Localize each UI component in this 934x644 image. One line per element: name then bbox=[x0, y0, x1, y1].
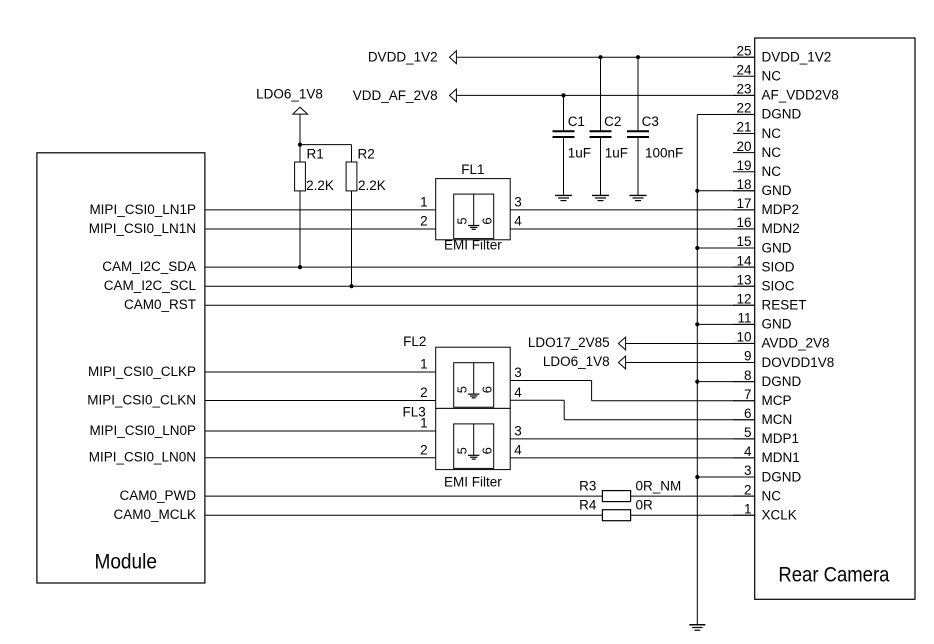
svg-text:EMI Filter: EMI Filter bbox=[444, 474, 502, 489]
svg-text:17: 17 bbox=[736, 196, 751, 211]
svg-text:1: 1 bbox=[420, 195, 428, 210]
wire MIPI_CSI0_LN1N module to FL1 pin2 bbox=[205, 228, 436, 230]
module pin label MIPI_CSI0_CLKN bbox=[87, 392, 196, 407]
wire MIPI_CSI0_LN0N module to FL3 pin2 bbox=[205, 457, 436, 459]
svg-text:AVDD_2V8: AVDD_2V8 bbox=[762, 336, 830, 351]
pin 9 DOVDD1V8 of Rear Camera bbox=[733, 349, 834, 370]
svg-text:25: 25 bbox=[736, 43, 751, 58]
ground inside FL2 bbox=[468, 394, 480, 398]
pin 17 MDP2 of Rear Camera bbox=[733, 196, 799, 217]
EMI Filter caption under FL1 bbox=[444, 238, 502, 253]
svg-text:6: 6 bbox=[744, 406, 752, 421]
svg-text:15: 15 bbox=[736, 234, 751, 249]
pin 20 NC of Rear Camera bbox=[733, 139, 781, 160]
wire DVDD_1V2 rail to pin25 bbox=[456, 56, 754, 58]
ground inside FL3 bbox=[468, 455, 480, 459]
pin 5 label of FL1 (rotated) bbox=[454, 217, 469, 224]
wire FL3 pin3 to pin5 MDP1 bbox=[510, 438, 755, 440]
resistor R3 0R_NM bbox=[579, 478, 681, 501]
svg-text:16: 16 bbox=[736, 215, 751, 230]
svg-text:5: 5 bbox=[744, 425, 752, 440]
svg-text:FL2: FL2 bbox=[403, 334, 426, 349]
svg-text:5: 5 bbox=[454, 217, 469, 224]
pin 12 RESET of Rear Camera bbox=[733, 292, 807, 313]
wire FL2 pin4 to pin6 MCN with jog bbox=[510, 400, 754, 420]
svg-text:VDD_AF_2V8: VDD_AF_2V8 bbox=[353, 88, 438, 103]
module pin label CAM0_MCLK bbox=[113, 507, 196, 522]
svg-text:19: 19 bbox=[736, 158, 751, 173]
wire CAM0_MCLK module to R4 left bbox=[205, 514, 603, 516]
wire MIPI_CSI0_LN1P module to FL1 pin1 bbox=[205, 209, 436, 211]
svg-text:DVDD_1V2: DVDD_1V2 bbox=[762, 50, 832, 65]
pin 8 DGND of Rear Camera bbox=[733, 368, 801, 389]
module pin label CAM0_RST bbox=[124, 297, 196, 312]
pin numbers 1-4 of FL1 bbox=[420, 195, 522, 229]
svg-text:CAM_I2C_SDA: CAM_I2C_SDA bbox=[102, 259, 196, 274]
svg-text:Rear Camera: Rear Camera bbox=[778, 563, 889, 587]
module pin label CAM0_PWD bbox=[119, 488, 196, 503]
wire FL3 pin4 to pin4 MDN1 bbox=[510, 457, 755, 459]
svg-text:3: 3 bbox=[514, 365, 522, 380]
svg-text:C2: C2 bbox=[604, 114, 621, 129]
svg-text:MIPI_CSI0_LN0P: MIPI_CSI0_LN0P bbox=[89, 423, 196, 438]
svg-text:12: 12 bbox=[736, 292, 751, 307]
ground symbol at bottom of rail bbox=[689, 625, 705, 630]
pin 21 NC of Rear Camera bbox=[733, 120, 781, 141]
svg-text:0R: 0R bbox=[636, 498, 654, 513]
svg-text:DGND: DGND bbox=[762, 374, 802, 389]
svg-text:CAM_I2C_SCL: CAM_I2C_SCL bbox=[104, 278, 197, 293]
reference label FL3 bbox=[403, 404, 426, 419]
wire VDD_AF_2V8 rail to pin23 bbox=[456, 94, 754, 96]
pin 5 MDP1 of Rear Camera bbox=[733, 425, 799, 446]
EMI filter FL1 body bbox=[436, 179, 511, 240]
svg-text:100nF: 100nF bbox=[645, 146, 683, 161]
svg-text:4: 4 bbox=[514, 385, 522, 400]
svg-text:XCLK: XCLK bbox=[762, 508, 797, 523]
svg-text:SIOD: SIOD bbox=[762, 259, 795, 274]
wire MIPI_CSI0_LN0P module to FL3 pin1 bbox=[205, 430, 436, 432]
capacitor C2 1uF bbox=[590, 57, 628, 195]
svg-text:MCP: MCP bbox=[762, 393, 792, 408]
module pin label MIPI_CSI0_LN0P bbox=[89, 423, 196, 438]
svg-text:1uF: 1uF bbox=[568, 146, 591, 161]
svg-text:20: 20 bbox=[736, 139, 751, 154]
pin 6 label of FL1 (rotated) bbox=[479, 217, 494, 224]
svg-text:11: 11 bbox=[737, 311, 751, 326]
pin numbers 1-4 of FL2 bbox=[420, 357, 522, 401]
svg-text:3: 3 bbox=[514, 424, 522, 439]
svg-text:3: 3 bbox=[744, 463, 752, 478]
svg-text:C3: C3 bbox=[642, 114, 659, 129]
wire DGND pin22 to vertical ground rail bbox=[697, 114, 754, 116]
svg-text:8: 8 bbox=[744, 368, 752, 383]
reference label FL1 bbox=[461, 162, 484, 177]
svg-text:R2: R2 bbox=[358, 146, 375, 161]
svg-text:C1: C1 bbox=[568, 114, 585, 129]
svg-text:FL3: FL3 bbox=[403, 404, 426, 419]
pin 19 NC of Rear Camera bbox=[733, 158, 781, 179]
pin 1 XCLK of Rear Camera bbox=[733, 501, 797, 522]
resistor R4 0R bbox=[579, 498, 653, 521]
svg-text:RESET: RESET bbox=[762, 298, 807, 313]
pin 15 GND of Rear Camera bbox=[733, 234, 792, 255]
svg-text:NC: NC bbox=[762, 126, 782, 141]
pin 14 SIOD of Rear Camera bbox=[733, 253, 795, 274]
svg-text:24: 24 bbox=[736, 63, 752, 78]
svg-text:9: 9 bbox=[744, 349, 752, 364]
svg-text:22: 22 bbox=[736, 101, 751, 116]
svg-text:DGND: DGND bbox=[762, 469, 802, 484]
pin 6 label of FL3 (rotated) bbox=[479, 447, 494, 454]
resistor R1 2.2K bbox=[295, 145, 334, 268]
svg-text:6: 6 bbox=[479, 217, 494, 224]
svg-text:R3: R3 bbox=[579, 478, 596, 493]
junction R2 bottom on SCL wire bbox=[349, 284, 353, 288]
svg-text:3: 3 bbox=[514, 195, 522, 210]
power flag VDD_AF_2V8 arrow bbox=[353, 88, 457, 103]
svg-text:0R_NM: 0R_NM bbox=[636, 478, 682, 493]
svg-text:23: 23 bbox=[736, 82, 751, 97]
svg-text:2: 2 bbox=[420, 443, 428, 458]
svg-text:MDP1: MDP1 bbox=[762, 431, 800, 446]
module pin label CAM_I2C_SCL bbox=[104, 278, 197, 293]
junction rail pin15 bbox=[695, 246, 699, 250]
wire GND pin11 stub bbox=[697, 323, 754, 325]
junction rail pin8 bbox=[695, 380, 699, 384]
pin 10 AVDD_2V8 of Rear Camera bbox=[733, 330, 830, 351]
svg-text:DOVDD1V8: DOVDD1V8 bbox=[762, 355, 835, 370]
wire CAM_I2C_SDA / SIOD net module to pin14 bbox=[205, 266, 755, 268]
svg-text:7: 7 bbox=[744, 387, 752, 402]
IC U1 Rear Camera box bbox=[755, 38, 915, 599]
EMI filter FL2 body bbox=[436, 347, 511, 408]
pin 5 label of FL3 (rotated) bbox=[454, 447, 469, 454]
junction C2 top on DVDD_1V2 rail bbox=[598, 55, 602, 59]
wire R4 right to pin1 XCLK bbox=[631, 514, 755, 516]
svg-text:MDN2: MDN2 bbox=[762, 221, 800, 236]
svg-text:2: 2 bbox=[420, 214, 428, 229]
wire LDO17_2V85 to pin10 AVDD_2V8 bbox=[626, 343, 755, 345]
svg-text:2: 2 bbox=[420, 385, 428, 400]
junction R1 bottom on SDA wire bbox=[298, 265, 302, 269]
wire CAM_I2C_SCL / SIOC net module to pin13 bbox=[205, 285, 755, 287]
junction rail pin11 bbox=[695, 322, 699, 326]
pin 25 DVDD_1V2 of Rear Camera bbox=[733, 43, 831, 64]
svg-text:GND: GND bbox=[762, 183, 792, 198]
wire DGND pin8 stub bbox=[697, 381, 754, 383]
svg-text:6: 6 bbox=[479, 447, 494, 454]
pin 13 SIOC of Rear Camera bbox=[733, 272, 795, 293]
pin 16 MDN2 of Rear Camera bbox=[733, 215, 800, 236]
svg-text:13: 13 bbox=[736, 272, 751, 287]
junction C3 top on DVDD_1V2 rail bbox=[636, 55, 640, 59]
svg-text:LDO6_1V8: LDO6_1V8 bbox=[256, 87, 323, 102]
svg-text:NC: NC bbox=[762, 69, 782, 84]
svg-text:MDN1: MDN1 bbox=[762, 450, 800, 465]
svg-text:CAM0_MCLK: CAM0_MCLK bbox=[113, 507, 196, 522]
power flag DVDD_1V2 arrow bbox=[368, 50, 457, 65]
pin 23 AF_VDD2V8 of Rear Camera bbox=[733, 82, 839, 103]
svg-text:1: 1 bbox=[744, 501, 752, 516]
power symbol LDO6_1V8 (top) bbox=[256, 87, 323, 145]
pin 7 MCP of Rear Camera bbox=[733, 387, 792, 408]
module pin label MIPI_CSI0_CLKP bbox=[88, 364, 196, 379]
EMI Filter caption under FL3 bbox=[444, 474, 502, 489]
wire MIPI_CSI0_CLKP module to FL2 pin1 bbox=[205, 371, 436, 373]
svg-text:MIPI_CSI0_LN1P: MIPI_CSI0_LN1P bbox=[89, 202, 196, 217]
svg-text:NC: NC bbox=[762, 164, 782, 179]
module pin label MIPI_CSI0_LN1P bbox=[89, 202, 196, 217]
pin numbers 1-4 of FL3 bbox=[420, 416, 522, 458]
svg-text:LDO6_1V8: LDO6_1V8 bbox=[543, 354, 610, 369]
svg-text:18: 18 bbox=[736, 177, 751, 192]
svg-text:CAM0_RST: CAM0_RST bbox=[124, 297, 196, 312]
svg-text:DVDD_1V2: DVDD_1V2 bbox=[368, 50, 438, 65]
pin 24 NC of Rear Camera bbox=[733, 63, 781, 84]
svg-text:14: 14 bbox=[736, 253, 752, 268]
wire FL1 pin4 to pin16 MDN2 bbox=[510, 228, 755, 230]
svg-text:GND: GND bbox=[762, 240, 792, 255]
ground inside FL1 bbox=[468, 226, 480, 230]
svg-text:MCN: MCN bbox=[762, 412, 793, 427]
wire GND pin15 stub bbox=[697, 247, 754, 249]
svg-text:2: 2 bbox=[744, 482, 752, 497]
svg-text:FL1: FL1 bbox=[461, 162, 484, 177]
pin 6 MCN of Rear Camera bbox=[733, 406, 792, 427]
svg-text:R4: R4 bbox=[579, 498, 597, 513]
pin 4 MDN1 of Rear Camera bbox=[733, 444, 800, 465]
svg-text:MIPI_CSI0_CLKP: MIPI_CSI0_CLKP bbox=[88, 364, 196, 379]
power flag LDO6_1V8 arrow (right) bbox=[543, 354, 626, 369]
wire FL2 pin3 to pin7 MCP with jog bbox=[510, 381, 754, 401]
ground below C2 bbox=[592, 195, 609, 200]
junction C1 top on VDD_AF_2V8 rail bbox=[561, 93, 565, 97]
svg-text:EMI Filter: EMI Filter bbox=[444, 238, 502, 253]
ground below C1 bbox=[555, 195, 572, 200]
svg-text:GND: GND bbox=[762, 317, 792, 332]
pin 5 label of FL2 (rotated) bbox=[454, 386, 469, 393]
wire DGND pin3 stub bbox=[697, 476, 754, 478]
pin 2 NC of Rear Camera bbox=[733, 482, 781, 503]
svg-text:MIPI_CSI0_LN0N: MIPI_CSI0_LN0N bbox=[89, 450, 196, 465]
resistor R2 2.2K bbox=[346, 146, 386, 286]
svg-text:2.2K: 2.2K bbox=[306, 178, 334, 193]
wire LDO6_1V8 junction to R2 top bbox=[300, 145, 352, 162]
capacitor C1 1uF bbox=[553, 95, 591, 195]
svg-text:10: 10 bbox=[736, 330, 751, 345]
wire FL1 pin3 to pin17 MDP2 bbox=[510, 209, 755, 211]
svg-text:CAM0_PWD: CAM0_PWD bbox=[119, 488, 196, 503]
svg-text:4: 4 bbox=[744, 444, 752, 459]
svg-text:1uF: 1uF bbox=[605, 146, 628, 161]
EMI filter FL3 body bbox=[436, 408, 511, 469]
power flag LDO17_2V85 arrow bbox=[528, 335, 626, 350]
module box (Module) bbox=[37, 153, 205, 583]
svg-text:Module: Module bbox=[94, 549, 157, 573]
pin 18 GND of Rear Camera bbox=[733, 177, 792, 198]
module pin label CAM_I2C_SDA bbox=[102, 259, 196, 274]
pin 11 GND of Rear Camera bbox=[733, 311, 792, 332]
pin 22 DGND of Rear Camera bbox=[733, 101, 801, 122]
junction rail pin3 bbox=[695, 475, 699, 479]
svg-text:NC: NC bbox=[762, 145, 782, 160]
pin 3 DGND of Rear Camera bbox=[733, 463, 801, 484]
svg-text:NC: NC bbox=[762, 488, 782, 503]
junction LDO6_1V8 R1 R2 bbox=[298, 143, 302, 147]
svg-text:R1: R1 bbox=[307, 146, 324, 161]
wire GND pin18 stub bbox=[697, 190, 754, 192]
module pin label MIPI_CSI0_LN1N bbox=[89, 221, 196, 236]
wire CAM0_RST / RESET net module to pin12 bbox=[205, 304, 755, 306]
reference label FL2 bbox=[403, 334, 426, 349]
svg-text:5: 5 bbox=[454, 386, 469, 393]
svg-text:DGND: DGND bbox=[762, 107, 802, 122]
svg-text:4: 4 bbox=[514, 214, 522, 229]
svg-text:AF_VDD2V8: AF_VDD2V8 bbox=[762, 88, 839, 103]
svg-text:LDO17_2V85: LDO17_2V85 bbox=[528, 335, 610, 350]
vertical ground rail wire bbox=[696, 115, 698, 625]
svg-text:MDP2: MDP2 bbox=[762, 202, 800, 217]
wire R3 right to pin2 NC bbox=[631, 495, 755, 497]
pin 6 label of FL2 (rotated) bbox=[479, 386, 494, 393]
svg-text:MIPI_CSI0_CLKN: MIPI_CSI0_CLKN bbox=[87, 392, 196, 407]
svg-text:SIOC: SIOC bbox=[762, 279, 795, 294]
ground below C3 bbox=[630, 195, 647, 200]
svg-text:21: 21 bbox=[736, 120, 751, 135]
junction rail pin18 bbox=[695, 189, 699, 193]
wire LDO6_1V8 to pin9 DOVDD1V8 bbox=[626, 362, 755, 364]
module pin label MIPI_CSI0_LN0N bbox=[89, 450, 196, 465]
svg-text:1: 1 bbox=[420, 357, 428, 372]
svg-text:4: 4 bbox=[514, 443, 522, 458]
svg-text:MIPI_CSI0_LN1N: MIPI_CSI0_LN1N bbox=[89, 221, 196, 236]
wire CAM0_PWD module to R3 left bbox=[205, 495, 603, 497]
capacitor C3 100nF bbox=[627, 57, 683, 195]
svg-text:2.2K: 2.2K bbox=[358, 178, 386, 193]
svg-text:6: 6 bbox=[479, 386, 494, 393]
wire MIPI_CSI0_CLKN module to FL2 pin2 bbox=[205, 400, 436, 402]
svg-text:5: 5 bbox=[454, 447, 469, 454]
